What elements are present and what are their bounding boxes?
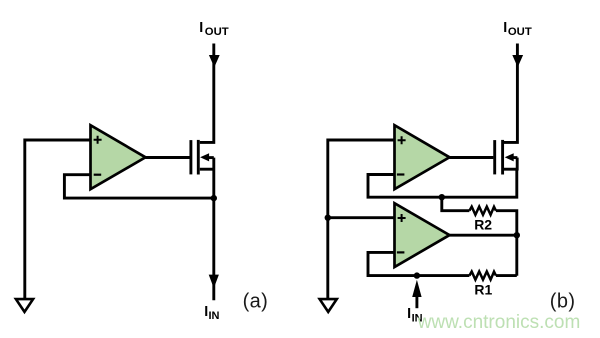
label IOUT (b) [503, 20, 532, 38]
op-amp U2b minus sign [397, 251, 405, 253]
wire: U1b output to gate (b) [450, 156, 494, 159]
transistor Q1a MOSFET gate bar [189, 140, 192, 174]
resistor R2 [469, 207, 496, 215]
wire: R1 right lead [496, 274, 517, 277]
svg-text:I: I [503, 20, 507, 36]
wire: source rail down to IIN (a) [212, 158, 215, 301]
wire: U1a inverting input feedback (a) [64, 175, 213, 198]
node: +input rail wire (a) [25, 140, 91, 298]
op-amp U2b plus sign [398, 214, 406, 222]
svg-text:I: I [199, 20, 203, 36]
wire: U2b inverting feedback to IIN node [368, 252, 469, 275]
transistor Q1a source stub [200, 168, 214, 171]
junction dot on ground rail (b) [325, 215, 331, 221]
op-amp U1a [91, 125, 146, 189]
wire: IOUT drain rail (b) with corner to MOSFET drain [504, 44, 517, 143]
wire: IOUT drain rail (a) with corner to MOSFET drain [200, 44, 214, 143]
junction node dot (a) [211, 195, 217, 201]
transistor Q1b body stub with arrow [512, 156, 518, 159]
label IIN (a) [204, 304, 219, 322]
IOUT current arrowhead (b) [512, 55, 523, 67]
op-amp U1a minus sign [94, 174, 102, 176]
transistor Q1b body-source tie [516, 158, 519, 171]
op-amp U1b minus sign [397, 173, 405, 175]
op-amp U2b [395, 203, 450, 267]
junction dot IIN node (b) [414, 272, 420, 278]
label IIN (b) [407, 306, 423, 325]
wire: ground rail tap to U2b + input [328, 216, 395, 219]
op-amp U1b [395, 125, 450, 189]
junction dot feedback/R2 (b) [439, 194, 445, 200]
transistor Q1b MOSFET gate bar [493, 140, 496, 174]
label IOUT (a) [199, 20, 228, 38]
svg-text:(a): (a) [243, 290, 269, 312]
junction dot output node (b) [514, 232, 520, 238]
wire: U1a output to gate (a) [146, 156, 190, 159]
wire: R2 right lead down to output node [496, 211, 517, 276]
wire: branch down to R2 [442, 197, 470, 211]
node: +input rail wire (b) [328, 140, 395, 298]
svg-text:R1: R1 [474, 281, 492, 297]
svg-text:I: I [407, 306, 411, 322]
IIN arrow (b) pointing up into node [412, 280, 421, 297]
wire: U2b output to output node [450, 234, 517, 237]
resistor R1 [469, 272, 496, 280]
IOUT current arrowhead (a) [209, 55, 220, 67]
svg-text:www.cntronics.com: www.cntronics.com [417, 312, 581, 333]
transistor Q1a channel bar [197, 140, 200, 175]
svg-text:OUT: OUT [205, 26, 229, 38]
transistor Q1b channel bar [501, 140, 504, 175]
ground (a) [16, 299, 33, 312]
svg-text:(b): (b) [550, 290, 576, 312]
ground (b) [320, 299, 337, 312]
op-amp U1a plus sign [94, 136, 102, 144]
svg-text:IN: IN [209, 310, 220, 322]
op-amp U1b plus sign [398, 136, 406, 144]
transistor Q1b source stub [504, 168, 518, 171]
transistor Q1a body stub with arrow [208, 156, 214, 159]
wire: U1b inverting feedback to source node (b) [368, 169, 517, 197]
svg-text:OUT: OUT [508, 26, 532, 38]
svg-text:R2: R2 [474, 217, 492, 233]
IIN current arrowhead (a) [209, 275, 219, 289]
